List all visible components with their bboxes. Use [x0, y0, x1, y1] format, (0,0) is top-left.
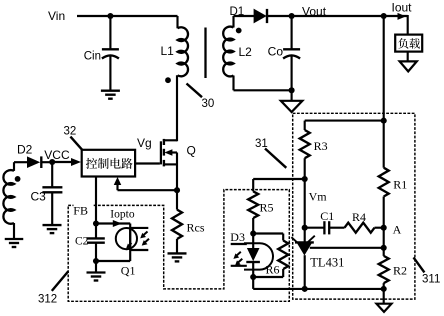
svg-text:Vin: Vin	[48, 9, 65, 23]
node source-Rcs junction	[174, 187, 180, 193]
svg-text:Iout: Iout	[392, 1, 413, 15]
aux winding	[3, 162, 27, 224]
wire CS sense	[118, 184, 178, 191]
LED D3	[246, 248, 260, 262]
node D3-R6 junction	[250, 274, 256, 280]
pointer line 311	[414, 257, 425, 272]
pointer line 30	[187, 84, 203, 98]
diode D2	[27, 156, 41, 168]
node C1 junction	[302, 225, 308, 231]
wire Cin bottom lead	[109, 57, 111, 91]
capacitor C1	[324, 221, 329, 234]
svg-text:R3: R3	[314, 139, 328, 153]
transformer core	[204, 28, 206, 79]
arrow VCC into box	[71, 158, 81, 166]
svg-text:C2: C2	[75, 236, 89, 248]
svg-text:R6: R6	[266, 262, 280, 276]
svg-text:312: 312	[38, 293, 57, 305]
diode D1	[254, 9, 267, 24]
wire C3 top lead	[51, 162, 53, 187]
label R2	[393, 264, 407, 278]
node emitter-C2 junction	[93, 258, 99, 264]
label Vg	[137, 136, 152, 150]
shunt regulator TL431	[291, 236, 314, 256]
transistor Q MOSFET	[161, 139, 177, 167]
inductor L1 primary winding	[178, 16, 189, 76]
inductor L2 secondary winding	[223, 16, 233, 76]
svg-text:C3: C3	[31, 190, 47, 204]
wire Iout sense vertical	[383, 16, 385, 121]
label Vm	[309, 190, 328, 204]
light arrows from D3	[233, 252, 242, 266]
wire opto ground drop	[252, 277, 254, 289]
label D3	[230, 230, 245, 244]
label 31	[255, 138, 268, 150]
node R5-D3-R6 junction	[250, 230, 256, 236]
wire drain vertical	[176, 153, 178, 191]
resistor R2	[379, 248, 389, 289]
wire to output ground	[291, 90, 293, 100]
wire to C1	[305, 227, 324, 229]
ground under C2/Q1	[87, 273, 106, 281]
ground under Cin	[101, 91, 120, 99]
label Co	[268, 45, 284, 59]
wire Vm rail	[304, 179, 306, 242]
wire FB pin lead	[95, 177, 97, 224]
node Vm junction	[302, 176, 308, 182]
capacitor Cin	[102, 49, 119, 58]
polarity dot aux	[15, 176, 21, 182]
svg-text:R4: R4	[352, 210, 366, 224]
svg-text:A: A	[393, 223, 402, 237]
svg-text:Vout: Vout	[302, 5, 327, 19]
label 312	[38, 293, 57, 305]
arrow CS into control box	[114, 177, 122, 185]
label D1	[230, 6, 245, 18]
pointer line 32	[70, 137, 82, 151]
wire to Q1 ground	[95, 261, 97, 272]
label R1	[393, 178, 407, 192]
node R1-R3 junction	[381, 118, 387, 124]
svg-text:D3: D3	[230, 230, 245, 244]
label C3	[31, 190, 47, 204]
capacitor Co	[283, 49, 300, 58]
label Vout	[302, 5, 327, 19]
label C1	[320, 209, 334, 223]
label A	[393, 223, 402, 237]
svg-text:R2: R2	[393, 264, 407, 278]
ground output (triangle)	[281, 101, 303, 112]
svg-text:L1: L1	[161, 44, 175, 58]
svg-text:R1: R1	[393, 178, 407, 192]
polarity dot L2	[236, 28, 242, 34]
label L2	[239, 45, 253, 59]
label R4	[352, 210, 366, 224]
node Iout branch junction	[381, 13, 387, 19]
svg-text:Q: Q	[187, 144, 196, 158]
load box (fuzai)	[395, 35, 422, 52]
wire L1 to MOSFET drain	[176, 75, 178, 141]
svg-text:32: 32	[64, 126, 77, 138]
wire divider ground rail	[253, 288, 384, 290]
label 32	[64, 126, 77, 138]
label VCC	[44, 148, 70, 162]
svg-text:Cin: Cin	[84, 50, 101, 62]
label Q1	[121, 263, 136, 277]
wire aux to ground	[13, 223, 15, 239]
svg-text:D2: D2	[17, 143, 33, 157]
svg-text:Iopto: Iopto	[110, 208, 135, 220]
svg-text:30: 30	[202, 98, 215, 110]
svg-text:R5: R5	[260, 201, 274, 215]
label TL431	[310, 256, 344, 270]
wire Co bottom lead	[291, 57, 293, 91]
node VCC junction	[49, 159, 55, 165]
wire C2 bottom lead	[95, 243, 97, 261]
capacitor C2	[87, 238, 105, 242]
wire D2 to VCC	[41, 161, 52, 163]
wire Vm to R5	[253, 178, 305, 180]
phototransistor Q1	[116, 227, 149, 250]
label 30	[202, 98, 215, 110]
node Vout junction	[289, 13, 295, 19]
pointer line 312	[52, 271, 68, 291]
wire R6 bottom	[253, 269, 283, 277]
svg-text:C1: C1	[320, 209, 334, 223]
label 311	[422, 274, 440, 286]
svg-text:Vg: Vg	[137, 136, 152, 150]
label L1	[161, 44, 175, 58]
light arrows into Q1	[140, 232, 149, 246]
dashed box 311	[293, 113, 415, 299]
resistor R1	[379, 121, 389, 228]
wire D3 anode lead	[252, 234, 254, 249]
label Cin	[84, 50, 101, 62]
svg-text:TL431: TL431	[310, 256, 344, 270]
svg-text:Co: Co	[268, 45, 284, 59]
node FB junction	[93, 220, 99, 226]
label Rcs	[187, 221, 205, 235]
wire Vout rail	[267, 15, 408, 17]
pointer line 31	[265, 149, 286, 168]
polarity dot L1	[165, 77, 171, 83]
label Q	[187, 144, 196, 158]
svg-text:Q1: Q1	[121, 263, 136, 277]
ground under C3	[43, 225, 62, 233]
wire R4 to A	[375, 227, 384, 229]
wire L2 top to D1	[234, 15, 255, 17]
wire TL431 anode	[304, 255, 306, 289]
wire TL431 REF	[310, 247, 384, 249]
wire C2 top lead	[95, 224, 97, 239]
svg-text:311: 311	[422, 274, 440, 286]
label Iout	[392, 1, 413, 15]
wire C1 to R4	[329, 227, 344, 229]
node Vin-Cin junction	[107, 13, 113, 19]
svg-text:D1: D1	[230, 6, 245, 18]
ground under load (triangle)	[400, 61, 417, 71]
wire R6 top	[253, 234, 283, 241]
svg-text:VCC: VCC	[44, 148, 70, 162]
wire Vg gate lead	[135, 162, 160, 164]
ground under Rcs	[168, 253, 187, 261]
wire load to ground	[407, 52, 409, 62]
wire VCC to control box	[52, 161, 73, 163]
wire Vin rail	[77, 15, 178, 17]
wire Q1 emitter	[96, 250, 130, 261]
node REF junction	[381, 245, 387, 251]
resistor R5	[248, 179, 258, 234]
label R6	[266, 262, 280, 276]
wire secondary bottom	[234, 76, 292, 91]
ground under aux winding	[5, 239, 24, 247]
label Iopto	[110, 208, 135, 220]
wire Co top lead	[291, 16, 293, 50]
label R3	[314, 139, 328, 153]
resistor Rcs	[172, 190, 182, 253]
control circuit box U-ctrl	[82, 150, 135, 177]
node secondary ground junction	[289, 87, 295, 93]
diode D2 label	[17, 143, 33, 157]
opto housing arc D3	[231, 243, 273, 269]
node TL431 anode junction	[302, 286, 308, 292]
resistor R6	[278, 241, 288, 270]
dashed box 312 outline	[68, 190, 289, 302]
svg-text:L2: L2	[239, 45, 253, 59]
capacitor C3	[42, 187, 62, 192]
label FB	[73, 203, 93, 218]
label Vin	[48, 9, 65, 23]
arrow Iout	[398, 13, 407, 20]
wire Iopto collector	[96, 220, 130, 228]
wire C3 bottom lead	[51, 192, 53, 225]
resistor R4	[345, 223, 375, 233]
wire to divider ground	[383, 289, 385, 304]
wire Cin top lead	[109, 15, 111, 50]
ground divider (triangle)	[377, 304, 392, 312]
wire A to R2	[383, 228, 385, 248]
wire Iout corner to load	[407, 15, 409, 35]
resistor R3	[300, 121, 310, 179]
label R5	[260, 201, 274, 215]
svg-text:Rcs: Rcs	[187, 221, 205, 235]
wire D3 cathode lead	[252, 262, 254, 277]
svg-text:Vm: Vm	[309, 190, 328, 204]
node R2 bottom junction	[381, 286, 387, 292]
wire R3 branch horizontal	[305, 120, 384, 122]
svg-text:FB: FB	[73, 204, 88, 218]
label C2	[75, 236, 89, 248]
node A	[381, 225, 387, 231]
